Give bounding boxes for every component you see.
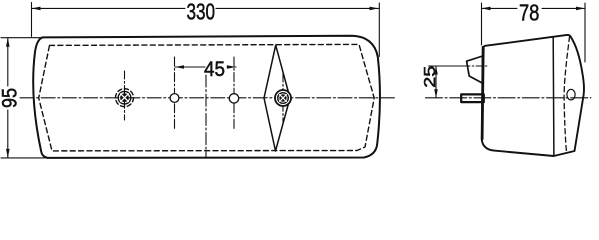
horizontal centerline (front view) xyxy=(20,97,395,99)
bracket (upper mounting pad) xyxy=(467,56,483,83)
svg-text:45: 45 xyxy=(204,57,225,81)
side view centerline xyxy=(426,97,592,99)
vertical center axis (front view) xyxy=(205,75,207,157)
svg-text:95: 95 xyxy=(0,88,22,108)
side view hidden cone (dashed) xyxy=(564,37,570,152)
side view body outline xyxy=(482,35,584,156)
dim 95: dimension line xyxy=(7,38,9,86)
screw S1 head xyxy=(118,91,131,104)
dim 25: dimension line xyxy=(435,66,437,98)
side view bulb ellipse xyxy=(567,89,575,100)
dim 78: extension lines xyxy=(481,3,483,45)
mounting stud xyxy=(461,94,484,102)
screw S2 head xyxy=(275,90,291,106)
dim 78: dimension line xyxy=(482,7,518,9)
svg-text:25: 25 xyxy=(422,66,439,88)
dim 330: dimension line xyxy=(32,7,186,9)
screw S1 dashed circle xyxy=(116,89,134,107)
hole H2 xyxy=(233,57,235,130)
dim 45: dimension line xyxy=(175,66,205,68)
lamp housing outline (front view) xyxy=(33,36,380,158)
bracket axis line xyxy=(429,65,464,67)
screw S1 centerline vertical xyxy=(124,71,126,120)
dim 330: extension lines xyxy=(31,3,33,37)
svg-text:330: 330 xyxy=(187,0,216,24)
diamond lens facet xyxy=(264,45,290,151)
dim 95: extension lines xyxy=(1,37,43,39)
svg-text:78: 78 xyxy=(519,0,540,25)
screw S2 centerline vertical xyxy=(282,74,284,124)
hole H1 xyxy=(174,57,176,130)
lens seam dashed outline (front view) xyxy=(39,44,375,150)
side view body left edge (thick) xyxy=(482,48,483,140)
side view lens seam line xyxy=(552,37,555,156)
